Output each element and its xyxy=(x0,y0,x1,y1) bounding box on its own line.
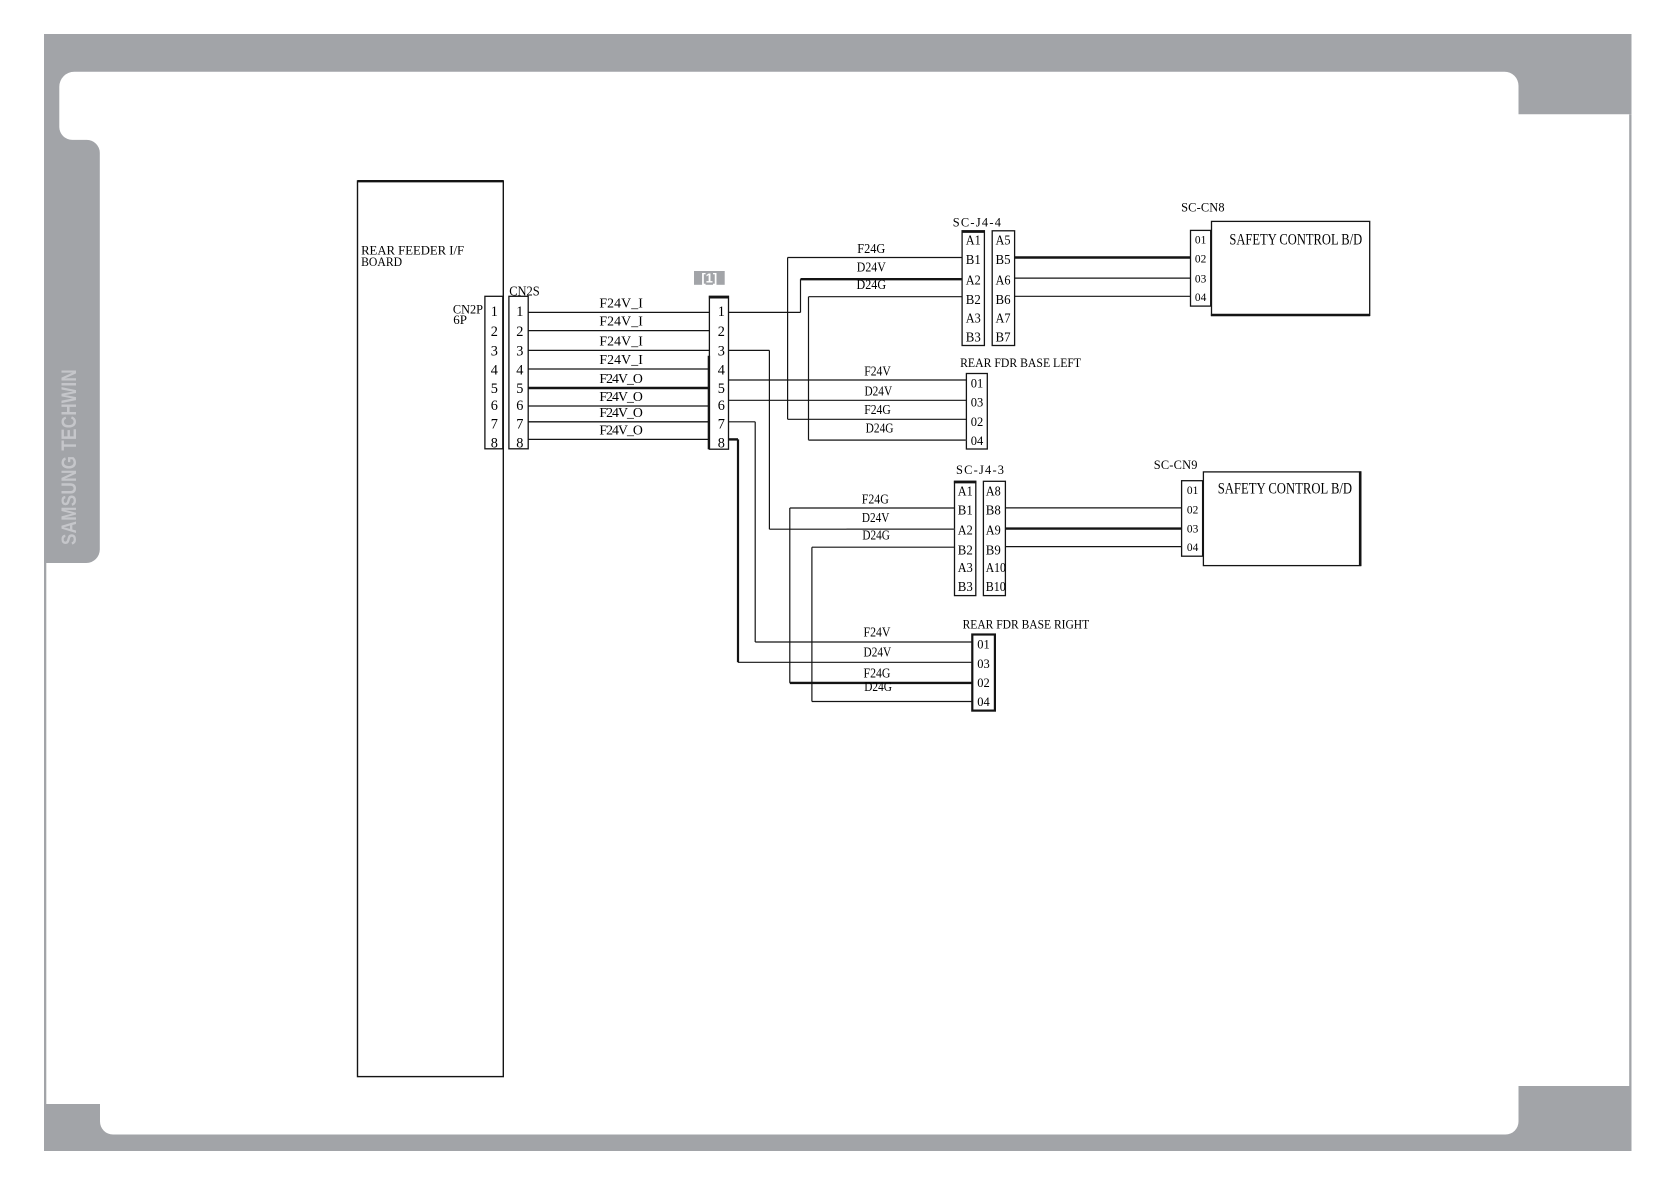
svg-text:D24G: D24G xyxy=(864,679,892,694)
svg-text:B5: B5 xyxy=(996,253,1011,268)
svg-text:F24V_I: F24V_I xyxy=(599,352,643,367)
svg-text:7: 7 xyxy=(491,416,498,432)
svg-text:04: 04 xyxy=(977,695,990,709)
svg-text:A5: A5 xyxy=(996,234,1011,249)
svg-text:SAFETY CONTROL B/D: SAFETY CONTROL B/D xyxy=(1218,481,1352,498)
svg-text:B7: B7 xyxy=(996,331,1011,346)
svg-text:3: 3 xyxy=(718,344,725,360)
svg-text:8: 8 xyxy=(491,436,498,452)
svg-text:SC-CN9: SC-CN9 xyxy=(1154,458,1198,472)
svg-text:SC-CN8: SC-CN8 xyxy=(1181,201,1225,215)
svg-text:F24V_O: F24V_O xyxy=(599,389,643,404)
svg-text:3: 3 xyxy=(491,344,498,360)
svg-text:D24V: D24V xyxy=(862,510,890,525)
svg-text:4: 4 xyxy=(718,363,725,379)
svg-text:F24V_O: F24V_O xyxy=(599,371,643,386)
svg-text:5: 5 xyxy=(491,381,498,397)
svg-text:F24V: F24V xyxy=(864,363,891,378)
svg-text:F24V_I: F24V_I xyxy=(599,296,643,311)
svg-text:4: 4 xyxy=(516,363,523,379)
svg-text:B1: B1 xyxy=(958,504,973,519)
svg-text:02: 02 xyxy=(1195,254,1207,266)
svg-text:3: 3 xyxy=(516,344,523,360)
svg-text:04: 04 xyxy=(1195,292,1207,304)
svg-text:F24V: F24V xyxy=(864,625,891,640)
svg-text:B3: B3 xyxy=(966,331,981,346)
svg-text:D24G: D24G xyxy=(862,528,890,543)
svg-text:B1: B1 xyxy=(966,253,981,268)
svg-text:SC-J4-4: SC-J4-4 xyxy=(953,215,1001,229)
svg-text:A10: A10 xyxy=(986,561,1006,576)
svg-text:01: 01 xyxy=(971,377,984,391)
svg-text:SAMSUNG TECHWIN: SAMSUNG TECHWIN xyxy=(58,369,81,545)
svg-text:1: 1 xyxy=(516,304,523,320)
svg-text:A3: A3 xyxy=(958,561,973,576)
svg-text:A9: A9 xyxy=(986,523,1001,538)
svg-text:A8: A8 xyxy=(986,484,1001,499)
svg-text:F24G: F24G xyxy=(864,402,891,417)
svg-text:D24G: D24G xyxy=(857,277,887,292)
svg-text:B10: B10 xyxy=(986,580,1006,595)
svg-text:04: 04 xyxy=(971,434,984,448)
svg-text:2: 2 xyxy=(491,324,498,340)
svg-text:F24G: F24G xyxy=(857,241,885,256)
svg-text:01: 01 xyxy=(1195,235,1207,247)
svg-text:D24V: D24V xyxy=(857,259,886,274)
svg-text:03: 03 xyxy=(977,657,990,671)
svg-text:A1: A1 xyxy=(966,234,981,249)
svg-text:F24V_O: F24V_O xyxy=(599,405,643,420)
svg-text:B2: B2 xyxy=(958,543,973,558)
svg-text:A7: A7 xyxy=(996,312,1011,327)
svg-text:01: 01 xyxy=(977,638,990,652)
svg-text:F24G: F24G xyxy=(864,665,891,680)
svg-text:SAFETY CONTROL B/D: SAFETY CONTROL B/D xyxy=(1229,232,1362,249)
svg-text:02: 02 xyxy=(977,676,990,690)
svg-text:7: 7 xyxy=(718,416,725,432)
svg-text:6: 6 xyxy=(491,398,498,414)
svg-text:D24G: D24G xyxy=(866,421,894,436)
svg-text:SC-J4-3: SC-J4-3 xyxy=(956,463,1004,477)
svg-text:03: 03 xyxy=(1187,524,1199,536)
svg-text:A1: A1 xyxy=(958,484,973,499)
svg-text:6P: 6P xyxy=(453,312,467,327)
svg-text:02: 02 xyxy=(971,415,984,429)
svg-text:B8: B8 xyxy=(986,504,1001,519)
svg-text:01: 01 xyxy=(1187,485,1199,497)
svg-text:02: 02 xyxy=(1187,505,1199,517)
svg-text:A2: A2 xyxy=(966,274,981,289)
svg-text:REAR FDR BASE RIGHT: REAR FDR BASE RIGHT xyxy=(963,618,1090,632)
svg-text:B6: B6 xyxy=(996,293,1011,308)
svg-text:F24G: F24G xyxy=(862,492,889,507)
svg-text:03: 03 xyxy=(1195,274,1207,286)
svg-text:D24V: D24V xyxy=(864,384,892,399)
svg-text:BOARD: BOARD xyxy=(361,254,402,269)
svg-text:7: 7 xyxy=(516,416,523,432)
svg-text:REAR FDR BASE LEFT: REAR FDR BASE LEFT xyxy=(960,356,1081,370)
svg-text:B3: B3 xyxy=(958,580,973,595)
svg-text:5: 5 xyxy=(718,381,725,397)
svg-text:D24V: D24V xyxy=(864,645,892,660)
svg-text:F24V_I: F24V_I xyxy=(599,314,643,329)
svg-text:8: 8 xyxy=(718,436,725,452)
svg-text:2: 2 xyxy=(718,324,725,340)
svg-text:A6: A6 xyxy=(996,274,1011,289)
svg-text:6: 6 xyxy=(718,398,725,414)
svg-text:04: 04 xyxy=(1187,542,1199,554)
svg-text:A3: A3 xyxy=(966,312,981,327)
svg-text:B2: B2 xyxy=(966,293,981,308)
svg-text:03: 03 xyxy=(971,396,984,410)
svg-text:4: 4 xyxy=(491,363,498,379)
svg-text:F24V_O: F24V_O xyxy=(599,423,643,438)
svg-text:F24V_I: F24V_I xyxy=(599,334,643,349)
svg-text:5: 5 xyxy=(516,381,523,397)
svg-text:2: 2 xyxy=(516,324,523,340)
svg-text:CN2S: CN2S xyxy=(509,283,540,298)
svg-text:A2: A2 xyxy=(958,523,973,538)
svg-text:1: 1 xyxy=(718,304,725,320)
svg-text:[1]: [1] xyxy=(701,270,717,285)
svg-text:1: 1 xyxy=(491,304,498,320)
svg-text:6: 6 xyxy=(516,398,523,414)
svg-text:8: 8 xyxy=(516,436,523,452)
svg-text:B9: B9 xyxy=(986,543,1001,558)
